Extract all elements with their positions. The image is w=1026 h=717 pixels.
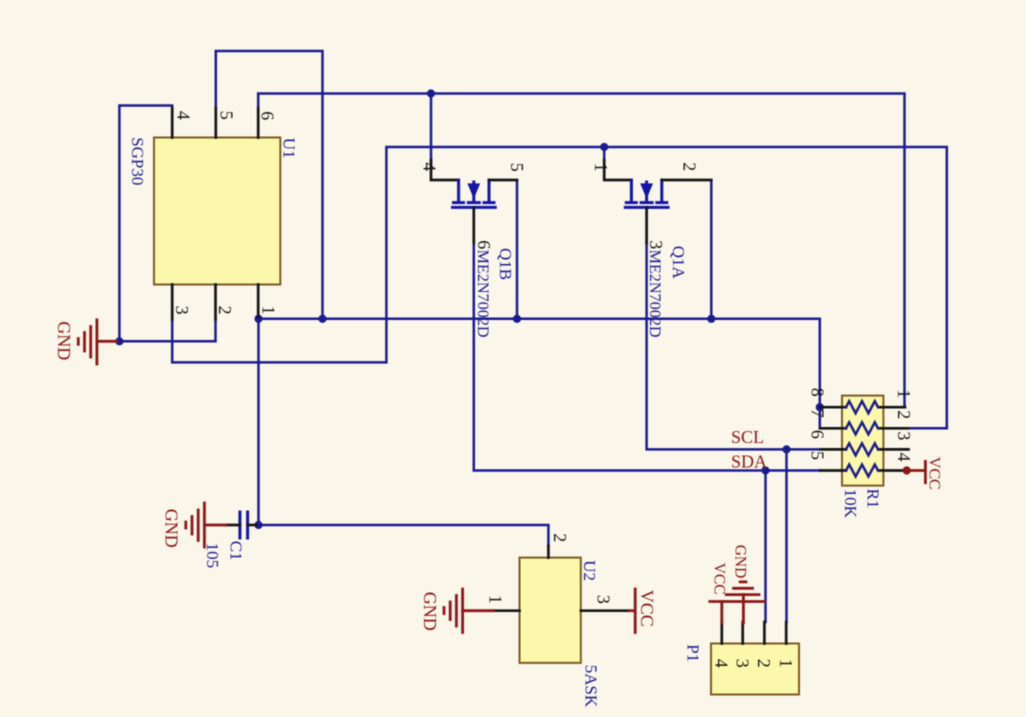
wire R1.2 right riser bbox=[906, 427, 947, 430]
svg-text:2: 2 bbox=[550, 533, 570, 542]
resistor network R1 body bbox=[842, 396, 883, 486]
transistor Q1B bbox=[431, 160, 517, 243]
R1 pin 8 stub bbox=[821, 406, 847, 409]
wire net U1.3 to Q1A gate and R1.2 bbox=[172, 147, 947, 428]
U2 pin 1 stub bbox=[493, 609, 519, 612]
wire net U1.4 to GND rail bbox=[119, 106, 172, 342]
svg-text:1: 1 bbox=[894, 389, 914, 398]
svg-text:SGP30: SGP30 bbox=[128, 137, 147, 185]
junction node R1.8 bbox=[816, 403, 824, 411]
junction node U1.1/pin5-loop bbox=[318, 315, 326, 323]
svg-text:5: 5 bbox=[507, 163, 527, 172]
wire GND rail to U1.2 bbox=[119, 320, 215, 342]
wire net U1.1 down to C1 bbox=[257, 319, 260, 525]
svg-text:U1: U1 bbox=[280, 138, 299, 159]
svg-text:R1: R1 bbox=[864, 489, 883, 509]
junction node SCL/P1.1 bbox=[782, 445, 790, 453]
svg-text:4: 4 bbox=[894, 453, 914, 462]
svg-text:5: 5 bbox=[216, 111, 236, 120]
svg-text:GND: GND bbox=[161, 509, 181, 548]
R1 pin 6 stub bbox=[821, 448, 847, 451]
wire Q1A gate drop bbox=[603, 147, 606, 162]
svg-text:2: 2 bbox=[894, 410, 914, 419]
U1 pin 4 stub bbox=[171, 108, 174, 138]
wire Q1A.2 to net row bbox=[710, 181, 713, 319]
svg-text:VCC: VCC bbox=[711, 563, 728, 595]
R1 resistor element 6-3 bbox=[846, 443, 878, 455]
svg-text:ME2N7002D: ME2N7002D bbox=[474, 250, 492, 338]
svg-text:1: 1 bbox=[776, 659, 796, 668]
svg-text:2: 2 bbox=[679, 162, 699, 171]
U1 pin 1 stub bbox=[257, 285, 260, 318]
junction node SDA/P1.2 bbox=[761, 466, 769, 474]
svg-text:3: 3 bbox=[646, 240, 666, 249]
svg-text:5ASK: 5ASK bbox=[581, 665, 600, 708]
wire SDA: Q1B.6 drain to R1.5 bbox=[474, 242, 821, 471]
ground GND at C1 bbox=[161, 503, 226, 548]
junction node Q1B.5 bbox=[513, 315, 521, 323]
svg-text:6: 6 bbox=[258, 111, 278, 120]
ground GND at P1.3 bbox=[726, 545, 759, 623]
R1 pin 7 stub bbox=[821, 427, 847, 430]
U1 pin 6 stub bbox=[257, 108, 260, 138]
R1 pin 1 stub bbox=[879, 406, 906, 409]
wire net U1.6 / VCC row to R1.1 bbox=[258, 94, 904, 408]
svg-text:VCC: VCC bbox=[926, 457, 943, 490]
ground GND at U1 left bbox=[54, 320, 117, 364]
svg-text:4: 4 bbox=[174, 111, 194, 120]
wire net U1.1 horizontal to R1.8/7 bbox=[259, 319, 820, 429]
svg-text:4: 4 bbox=[711, 659, 731, 668]
P1 pin 4 stub bbox=[720, 622, 723, 644]
R1 resistor element 5-4 bbox=[846, 465, 878, 477]
power VCC at R1.4 bbox=[903, 457, 943, 490]
svg-text:8: 8 bbox=[807, 388, 827, 397]
svg-text:GND: GND bbox=[54, 321, 74, 360]
wire SCL: Q1A.3 drain to R1.6 bbox=[647, 242, 821, 449]
P1 pin 2 stub bbox=[763, 622, 766, 644]
wire SCL drop to P1.1 bbox=[785, 449, 788, 622]
U1 pin 2 stub bbox=[214, 285, 217, 320]
transistor Q1A bbox=[604, 160, 711, 243]
P1 pin 1 stub bbox=[785, 622, 788, 644]
R1 pin 3 stub bbox=[879, 448, 909, 451]
P1 pin 3 stub bbox=[741, 622, 744, 644]
R1 pin 4 stub bbox=[879, 469, 907, 472]
R1 pin 5 stub bbox=[821, 469, 847, 472]
wire Q1B gate drop bbox=[430, 94, 433, 163]
ground GND at U2.1 bbox=[420, 589, 494, 633]
svg-text:ME2N7002D: ME2N7002D bbox=[646, 250, 664, 338]
IC U2 body bbox=[520, 558, 581, 663]
junction node C1 bbox=[254, 521, 262, 529]
wire Q1B.5 to net row bbox=[516, 181, 519, 319]
svg-text:7: 7 bbox=[807, 409, 827, 418]
svg-text:3: 3 bbox=[172, 306, 192, 315]
svg-text:5: 5 bbox=[807, 451, 827, 460]
R1 pin 2 stub bbox=[879, 427, 909, 430]
svg-text:6: 6 bbox=[807, 430, 827, 439]
U2 pin 2 stub bbox=[547, 546, 550, 558]
svg-text:3: 3 bbox=[894, 431, 914, 440]
svg-text:U2: U2 bbox=[580, 560, 599, 581]
svg-text:Q1A: Q1A bbox=[669, 246, 688, 280]
svg-text:Q1B: Q1B bbox=[496, 248, 515, 280]
capacitor C1 bbox=[227, 512, 257, 538]
svg-text:P1: P1 bbox=[684, 644, 703, 662]
svg-text:105: 105 bbox=[203, 543, 222, 569]
svg-text:GND: GND bbox=[420, 592, 440, 631]
svg-text:6: 6 bbox=[474, 240, 494, 249]
svg-text:4: 4 bbox=[420, 162, 440, 171]
R1 resistor element 8-1 bbox=[846, 401, 878, 413]
svg-text:10K: 10K bbox=[841, 489, 860, 519]
wire C1 node to U2.2 bbox=[259, 525, 549, 546]
svg-text:3: 3 bbox=[733, 659, 753, 668]
svg-text:1: 1 bbox=[258, 306, 278, 315]
svg-text:SDA: SDA bbox=[731, 451, 767, 471]
junction node Q1B gate bbox=[427, 89, 435, 97]
wire net U1.5 top loop bbox=[216, 51, 323, 319]
junction node U1.1 pin bbox=[254, 315, 262, 323]
U2 pin 3 stub bbox=[581, 609, 630, 612]
R1 resistor element 7-2 bbox=[846, 422, 878, 434]
junction node Q1A.2 bbox=[707, 315, 715, 323]
svg-text:2: 2 bbox=[215, 306, 235, 315]
svg-text:1: 1 bbox=[591, 163, 611, 172]
power VCC at P1.4 bbox=[710, 563, 765, 623]
IC U1 body bbox=[154, 138, 280, 285]
U1 pin 5 stub bbox=[214, 108, 217, 138]
junction node Q1A gate bbox=[600, 143, 608, 151]
svg-text:3: 3 bbox=[593, 595, 613, 604]
svg-text:C1: C1 bbox=[227, 541, 246, 561]
wire SDA drop to P1.2 bbox=[764, 471, 767, 623]
junction node GND rail bbox=[115, 337, 123, 345]
connector P1 body bbox=[711, 644, 799, 695]
svg-text:VCC: VCC bbox=[637, 590, 657, 627]
svg-text:1: 1 bbox=[486, 595, 506, 604]
svg-text:SCL: SCL bbox=[731, 427, 764, 447]
svg-text:2: 2 bbox=[754, 659, 774, 668]
U1 pin 3 stub bbox=[171, 285, 174, 320]
svg-text:GND: GND bbox=[731, 545, 748, 579]
power VCC at U2.3 bbox=[629, 589, 657, 633]
